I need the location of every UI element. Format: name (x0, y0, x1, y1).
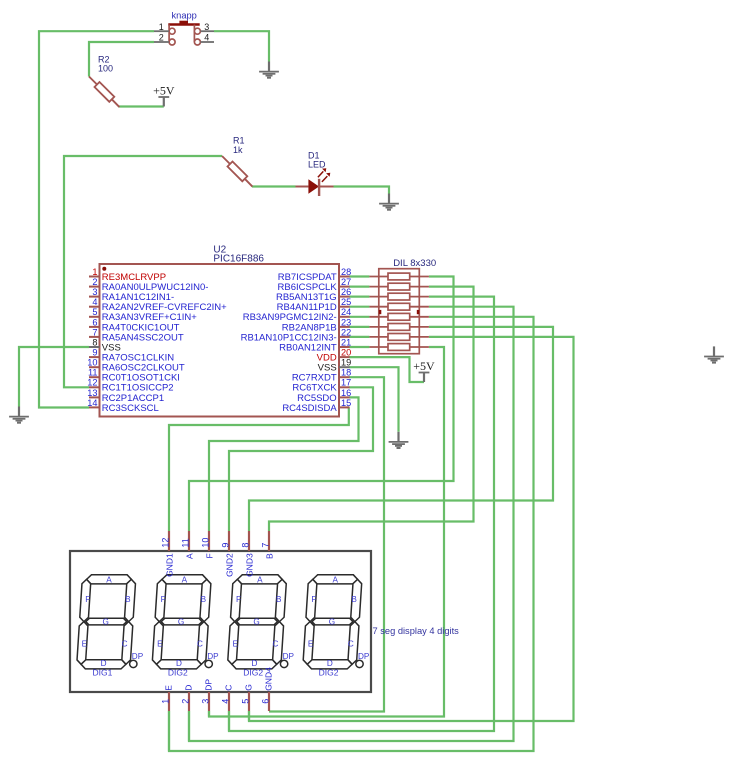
pushbutton S1 knapp (168, 21, 200, 45)
U2 pin 15 stub (339, 406, 350, 408)
svg-text:4: 4 (220, 699, 230, 704)
display bottom pin 1 E stub (168, 692, 170, 711)
svg-text:21: 21 (341, 337, 351, 347)
svg-text:E: E (164, 685, 174, 691)
U2 pin 20 stub (339, 356, 350, 358)
resistor network RN1 DIL 8x330 box (379, 269, 420, 354)
svg-text:DIG2: DIG2 (243, 667, 263, 677)
svg-text:DIL 8x330: DIL 8x330 (393, 258, 436, 269)
U2 pin 19 stub (339, 366, 350, 368)
resistor network element row 4 lead (369, 306, 388, 308)
wire U2 pin RC4SDISDA to display pin 12 GND1 (169, 407, 349, 531)
display module box 7 seg display 4 digits (70, 551, 371, 692)
wire DIL output row8 to display pin 3 DP (209, 347, 444, 717)
svg-text:B: B (351, 595, 357, 604)
ground symbol at U2 VSS pin19 (397, 432, 399, 442)
svg-text:28: 28 (341, 267, 351, 277)
U2 pin 1 stub (89, 276, 100, 278)
U2 pin 25 stub (339, 306, 350, 308)
ground symbol at LED cathode (388, 194, 390, 204)
resistor network element row 5 lead (369, 316, 388, 318)
wire U2 pin 24 to resistor network input (349, 316, 369, 318)
wire U2 VSS pin8 to ground (19, 347, 89, 407)
svg-text:DIG2: DIG2 (168, 667, 188, 677)
wire LED D1 cathode to ground (334, 187, 390, 194)
svg-text:F: F (161, 595, 166, 604)
resistor network element row 7 body (388, 334, 410, 341)
7seg digit 3 segments (227, 575, 287, 669)
resistor network element row 8 body (388, 344, 410, 351)
resistor network element row 2 body (388, 283, 410, 290)
svg-text:G: G (253, 617, 259, 626)
display top pin 11 A stub (188, 531, 190, 551)
knapp pin 3 stub (201, 30, 215, 32)
svg-text:11: 11 (88, 368, 98, 378)
svg-text:1: 1 (160, 699, 170, 704)
wire display pin3 DP drop (208, 711, 210, 717)
wire net from knapp pin1 to U2 pin RC3SCKSCL (39, 31, 154, 407)
svg-text:18: 18 (341, 368, 351, 378)
ground symbol floating at right edge (713, 346, 715, 356)
svg-text:5: 5 (240, 699, 250, 704)
svg-text:A: A (257, 576, 263, 585)
svg-text:GND1: GND1 (164, 553, 174, 577)
svg-text:G: G (103, 617, 109, 626)
svg-text:1: 1 (92, 267, 97, 277)
svg-text:6: 6 (92, 317, 97, 327)
wire U2 pin 25 to resistor network input (349, 306, 369, 308)
svg-text:GND4: GND4 (264, 667, 274, 691)
svg-text:RC4SDISDA: RC4SDISDA (282, 403, 337, 414)
svg-text:10: 10 (200, 538, 210, 548)
svg-text:7: 7 (92, 327, 97, 337)
svg-text:B: B (125, 595, 131, 604)
display top pin 8 GND3 stub (248, 531, 250, 551)
svg-text:15: 15 (341, 398, 351, 408)
svg-text:G: G (244, 684, 254, 691)
svg-text:8: 8 (92, 337, 97, 347)
wire display pin4 C drop (228, 711, 230, 731)
resistor network element row 3 body (388, 293, 410, 300)
knapp pin 1 stub (154, 30, 169, 32)
svg-text:RC3SCKSCL: RC3SCKSCL (102, 403, 159, 414)
knapp pin 2 stub (154, 41, 169, 43)
+5V supply symbol near R2 (158, 96, 169, 98)
wire net from knapp pin2 down to R2 (89, 42, 154, 77)
svg-text:22: 22 (341, 327, 351, 337)
wire DIL output row5 to display pin 1 segment E (169, 317, 534, 751)
resistor network element row 1 body (388, 273, 410, 280)
svg-text:7: 7 (260, 543, 270, 548)
resistor network element row 6 lead (369, 326, 388, 328)
resistor network element row 8 lead (369, 346, 388, 348)
svg-text:27: 27 (341, 277, 351, 287)
svg-text:E: E (82, 640, 88, 649)
wire DIL output row7 to display pin 5 segment G (249, 337, 574, 721)
wire DIL output row4 to display pin 2 segment D (189, 307, 514, 741)
svg-text:23: 23 (341, 317, 351, 327)
svg-text:1k: 1k (233, 145, 243, 155)
resistor network element row 4 body (388, 303, 410, 310)
svg-text:6: 6 (260, 699, 270, 704)
svg-text:DP: DP (207, 652, 219, 661)
U2 pin 24 stub (339, 316, 350, 318)
svg-text:DP: DP (358, 652, 370, 661)
U2 pin 11 stub (89, 376, 100, 378)
display bottom pin 5 G stub (248, 692, 250, 711)
svg-text:GND3: GND3 (244, 553, 254, 577)
wire R2 to +5V supply (119, 105, 164, 107)
svg-text:G: G (329, 617, 335, 626)
svg-text:LED: LED (308, 159, 326, 169)
display top pin 12 GND1 stub (168, 531, 170, 551)
wire U2 pin 21 to resistor network input (349, 346, 369, 348)
U2 pin 18 stub (339, 376, 350, 378)
7seg digit 1 decimal point (130, 660, 137, 667)
svg-text:8: 8 (240, 543, 250, 548)
U2 pin 26 stub (339, 296, 350, 298)
resistor network element row 1 lead (369, 276, 388, 278)
svg-text:100: 100 (98, 64, 113, 74)
svg-text:12: 12 (160, 538, 170, 548)
svg-text:11: 11 (180, 538, 190, 547)
wire U2 pin RC5SDO to display pin 10 segment F (209, 397, 359, 531)
display bottom pin 3 DP stub (208, 692, 210, 711)
svg-text:DP: DP (283, 652, 295, 661)
svg-text:DIG2: DIG2 (319, 667, 339, 677)
svg-text:+5V: +5V (413, 359, 435, 373)
svg-text:14: 14 (87, 398, 97, 408)
wire U2 pin RC7RXDT to display pin 6 GND4 (269, 377, 384, 711)
svg-text:1: 1 (159, 22, 164, 32)
svg-text:A: A (184, 553, 194, 559)
wire U2 pin 28 to resistor network input (349, 275, 369, 277)
U2 pin 16 stub (339, 396, 350, 398)
display bottom pin 4 C stub (228, 692, 230, 711)
svg-text:A: A (106, 576, 112, 585)
svg-text:26: 26 (341, 287, 351, 297)
ground symbol at U2 VSS pin8 (18, 407, 20, 417)
svg-text:C: C (122, 640, 128, 649)
svg-text:3: 3 (92, 287, 97, 297)
resistor network index marks (379, 310, 381, 314)
svg-text:24: 24 (341, 307, 351, 317)
7seg digit 3 decimal point (280, 660, 287, 667)
U2 pin 10 stub (89, 366, 100, 368)
svg-text:C: C (197, 640, 203, 649)
display top pin 7 B stub (268, 531, 270, 551)
svg-text:17: 17 (341, 378, 351, 388)
svg-text:13: 13 (87, 388, 97, 398)
U2 pin 2 stub (89, 286, 100, 288)
U2 pin 8 stub (89, 346, 100, 348)
U2 pin 13 stub (89, 396, 100, 398)
U2 pin 7 stub (89, 336, 100, 338)
svg-text:+5V: +5V (153, 83, 175, 97)
svg-text:E: E (232, 640, 238, 649)
resistor network element row 6 body (388, 324, 410, 331)
svg-text:B: B (264, 553, 274, 559)
wire display pin2 D drop (188, 711, 190, 741)
svg-text:10: 10 (87, 358, 97, 368)
svg-text:4: 4 (92, 297, 97, 307)
svg-text:B: B (276, 595, 282, 604)
svg-text:2: 2 (159, 33, 164, 43)
wire DIL output row6 to display pin 8 GND3 (249, 327, 553, 531)
svg-text:DIG1: DIG1 (92, 667, 112, 677)
svg-text:3: 3 (204, 22, 209, 32)
svg-text:9: 9 (220, 543, 230, 548)
svg-text:G: G (178, 617, 184, 626)
svg-text:3: 3 (200, 699, 210, 704)
svg-text:knapp: knapp (172, 11, 197, 21)
U2 pin 9 stub (89, 356, 100, 358)
U2 pin 23 stub (339, 326, 350, 328)
svg-text:DP: DP (204, 679, 214, 691)
svg-text:25: 25 (341, 297, 351, 307)
resistor network element row 2 lead (369, 286, 388, 288)
U2 pin 27 stub (339, 286, 350, 288)
svg-text:2: 2 (92, 277, 97, 287)
svg-text:F: F (311, 595, 316, 604)
7seg digit 1 segments (76, 575, 136, 669)
svg-text:19: 19 (341, 358, 351, 368)
wire display pin5 G drop (248, 711, 250, 721)
svg-text:E: E (157, 640, 163, 649)
svg-text:12: 12 (87, 378, 97, 388)
ground symbol at knapp pin3 (268, 62, 270, 72)
svg-text:D: D (184, 685, 194, 691)
op-amp U2 PIC16F886 IC body (100, 264, 340, 417)
U2 pin 4 stub (89, 306, 100, 308)
U2 pin 12 stub (89, 386, 100, 388)
U2 pin 6 stub (89, 326, 100, 328)
svg-text:F: F (204, 553, 214, 558)
knapp pin 4 stub (201, 41, 215, 43)
wire U2 pin 23 to resistor network input (349, 326, 369, 328)
wire U2 VSS pin19 to ground (349, 367, 399, 432)
svg-text:PIC16F886: PIC16F886 (213, 254, 264, 265)
U2 pin 17 stub (339, 386, 350, 388)
7seg digit 4 segments (303, 575, 363, 669)
svg-text:E: E (308, 640, 314, 649)
wire U2 pin RC6TXCK to display pin 9 GND2 (229, 387, 373, 531)
svg-text:5: 5 (92, 307, 97, 317)
svg-text:GND2: GND2 (224, 553, 234, 577)
U2 pin 3 stub (89, 296, 100, 298)
svg-text:7 seg display 4 digits: 7 seg display 4 digits (373, 626, 460, 636)
LED D1 (296, 168, 334, 196)
U2 pin 22 stub (339, 336, 350, 338)
display top pin 10 F stub (208, 531, 210, 551)
+5V supply symbol near U2 VDD (419, 372, 430, 374)
svg-text:A: A (332, 576, 338, 585)
U2 pin1 marker dot (102, 267, 106, 271)
wire U2 pin 27 to resistor network input (349, 286, 369, 288)
svg-text:F: F (85, 595, 90, 604)
svg-text:C: C (272, 640, 278, 649)
resistor R1 (222, 156, 230, 164)
wire R1 to LED D1 anode (252, 185, 296, 187)
wire DIL output row1 to display pin 11 segment A (189, 277, 454, 532)
wire U2 pin 26 to resistor network input (349, 296, 369, 298)
svg-text:C: C (224, 685, 234, 691)
svg-text:C: C (348, 640, 354, 649)
svg-text:4: 4 (204, 33, 209, 43)
svg-text:B: B (201, 595, 207, 604)
svg-text:F: F (236, 595, 241, 604)
svg-text:9: 9 (92, 348, 97, 358)
7seg digit 2 segments (152, 575, 212, 669)
resistor network element row 3 lead (369, 296, 388, 298)
wire DIL output row2 to display pin 7 segment B (269, 287, 474, 531)
svg-text:20: 20 (341, 348, 351, 358)
wire U2 pin 22 to resistor network input (349, 336, 369, 338)
svg-text:DP: DP (132, 652, 144, 661)
wire net from U2 pin RC1T1OSICCP2 up to R1 (64, 156, 222, 387)
svg-text:A: A (182, 576, 188, 585)
U2 pin 21 stub (339, 346, 350, 348)
U2 pin 14 stub (89, 406, 100, 408)
wire U2 VDD pin20 to +5V supply (349, 357, 424, 382)
7seg digit 4 decimal point (356, 660, 363, 667)
resistor network element row 7 lead (369, 336, 388, 338)
display top pin 9 GND2 stub (228, 531, 230, 551)
wire knapp pin3 to ground (214, 31, 269, 61)
display bottom pin 6 GND4 stub (268, 692, 270, 711)
7seg digit 2 decimal point (205, 660, 212, 667)
wire display pin1 E drop (168, 711, 170, 751)
U2 pin 5 stub (89, 316, 100, 318)
svg-text:16: 16 (341, 388, 351, 398)
resistor network element row 5 body (388, 313, 410, 320)
display bottom pin 2 D stub (188, 692, 190, 711)
wire DIL output row3 to display pin 4 segment C (229, 297, 494, 731)
svg-text:2: 2 (180, 699, 190, 704)
resistor R2 (89, 77, 97, 85)
U2 pin 28 stub (339, 276, 350, 278)
